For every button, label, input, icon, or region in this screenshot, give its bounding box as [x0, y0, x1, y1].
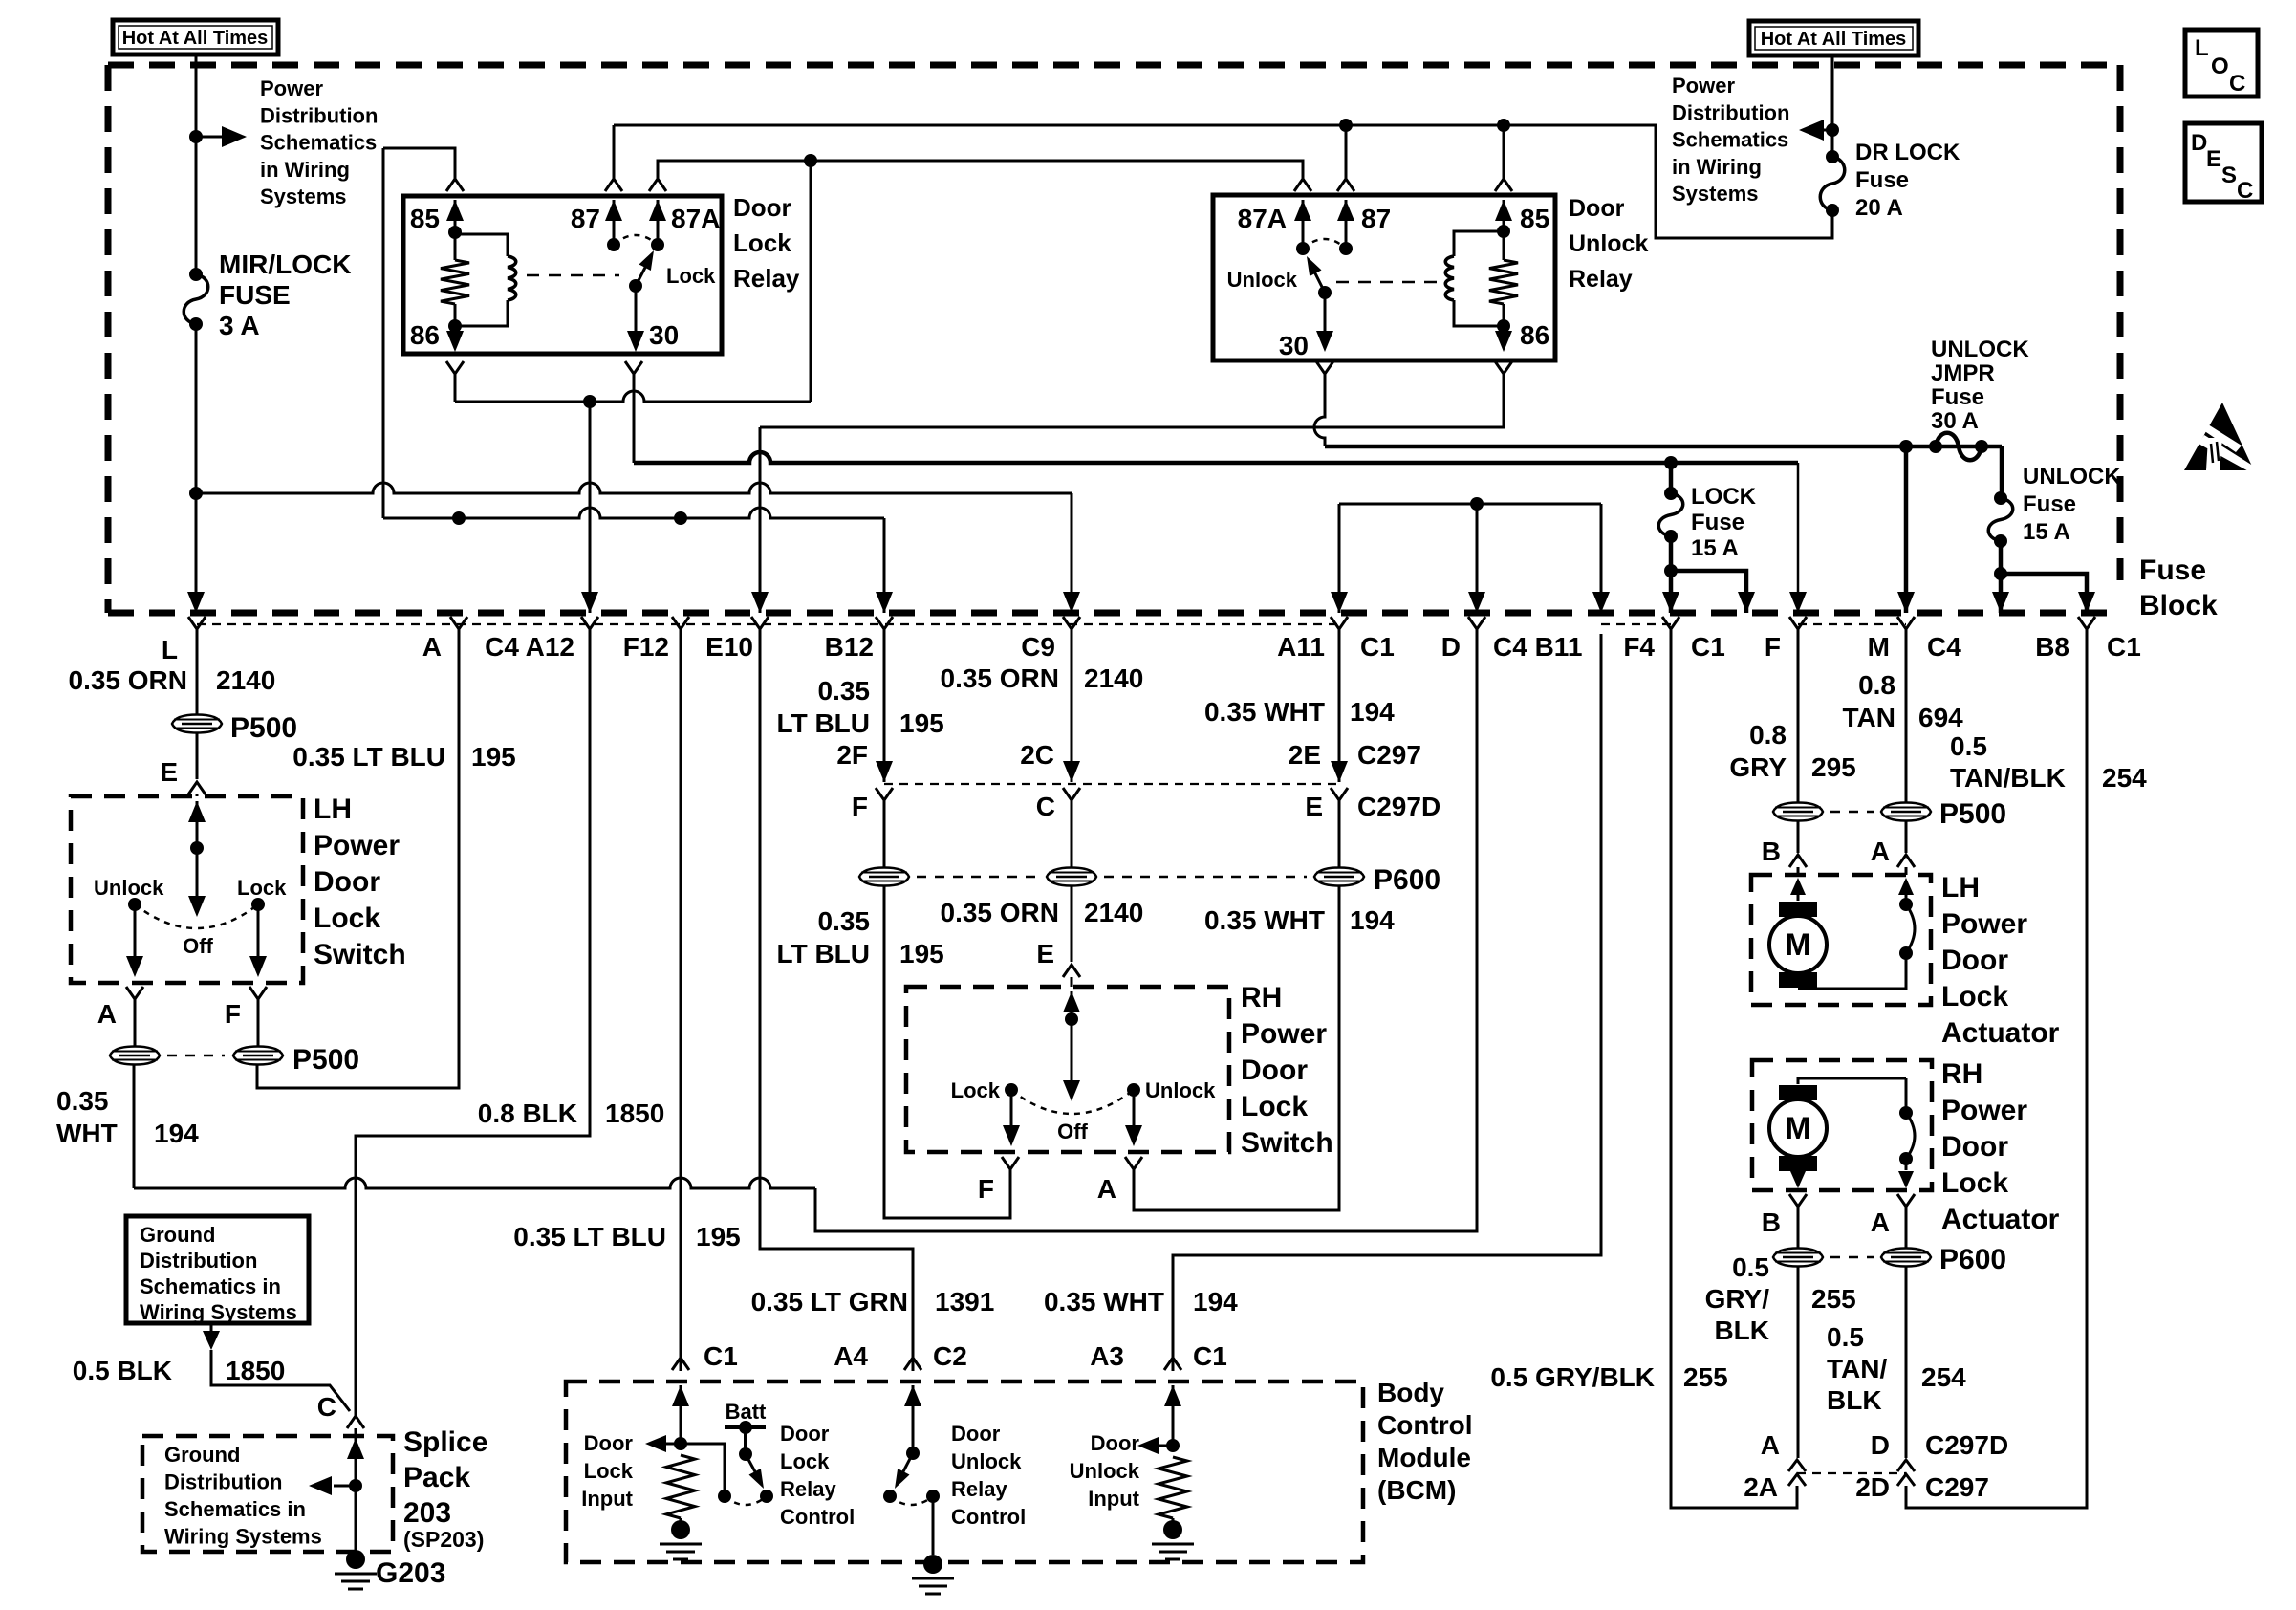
svg-text:Wiring Systems: Wiring Systems	[164, 1525, 322, 1549]
fuse LOCK 15A	[1669, 463, 1674, 493]
svg-text:Actuator: Actuator	[1941, 1017, 2060, 1049]
pin 30 lock relay	[635, 286, 638, 332]
svg-text:C: C	[1036, 792, 1055, 821]
svg-text:C297: C297	[1925, 1472, 1989, 1502]
svg-text:C4: C4	[1927, 632, 1961, 662]
svg-text:Schematics in: Schematics in	[140, 1274, 281, 1298]
svg-text:JMPR: JMPR	[1931, 360, 1995, 386]
connector C297 dashed	[884, 783, 1339, 785]
pin L	[188, 617, 206, 634]
svg-text:C9: C9	[1021, 632, 1055, 662]
wire B8 down right side	[1906, 634, 2087, 1508]
svg-text:194: 194	[1350, 905, 1395, 935]
svg-text:Power: Power	[1241, 1018, 1327, 1050]
wire B8 drop	[2001, 574, 2087, 613]
svg-text:C297: C297	[1357, 740, 1421, 770]
svg-text:Input: Input	[581, 1487, 633, 1511]
svg-text:Lock: Lock	[1941, 981, 2008, 1012]
mech link dashed unlock relay	[1336, 281, 1442, 284]
svg-text:254: 254	[1921, 1362, 1966, 1392]
wire unlock fuse chain	[2000, 446, 2004, 498]
svg-text:LOCK: LOCK	[1691, 484, 1757, 510]
svg-text:E: E	[1305, 792, 1323, 821]
pin 30 lock relay connector	[625, 361, 642, 379]
Hot At All Times box left	[113, 20, 278, 54]
pin F LH switch	[249, 987, 267, 1004]
fuse UNLOCK 15A	[1988, 498, 2013, 541]
fuse DR LOCK 20A	[1820, 157, 1845, 210]
wire P600 to RH switch F	[884, 886, 1010, 1218]
svg-text:0.35: 0.35	[56, 1086, 109, 1116]
svg-text:0.35 LT GRN: 0.35 LT GRN	[751, 1287, 908, 1316]
svg-text:Fuse: Fuse	[1931, 384, 1984, 410]
svg-text:2D: 2D	[1855, 1472, 1890, 1502]
svg-text:Switch: Switch	[1241, 1127, 1333, 1159]
svg-text:C1: C1	[1193, 1341, 1227, 1371]
wire B12 to 2F	[883, 634, 886, 782]
svg-text:Power: Power	[314, 830, 400, 861]
pin A RH switch	[1125, 1157, 1142, 1174]
svg-text:15 A: 15 A	[2023, 519, 2070, 545]
svg-text:M: M	[1786, 1111, 1811, 1145]
svg-text:Hot At All Times: Hot At All Times	[122, 28, 269, 49]
body control module box	[566, 1382, 1363, 1562]
wire y131 fused B+	[614, 125, 1832, 238]
svg-text:B12: B12	[825, 632, 874, 662]
svg-text:Off: Off	[183, 934, 213, 958]
svg-text:in Wiring: in Wiring	[1672, 155, 1762, 179]
svg-text:MIR/LOCK: MIR/LOCK	[219, 250, 351, 279]
power distribution note arrow left	[189, 130, 203, 143]
svg-text:C: C	[2229, 71, 2245, 97]
LH switch internals	[188, 801, 206, 822]
svg-text:D: D	[1441, 632, 1461, 662]
wire 0.35 LT BLU 195 LH	[257, 634, 459, 1088]
wire to LH switch E	[196, 733, 199, 779]
wire L from Hot At All Times 1	[195, 54, 198, 274]
door unlock relay box	[1213, 195, 1555, 360]
wire C1 drop (lock)	[1671, 571, 1746, 613]
wire lock relay 85 to H2	[382, 148, 385, 518]
fuse UNLOCK JMPR 30A	[1936, 433, 1982, 461]
wire 0.8 TAN 694	[1905, 634, 1908, 802]
svg-text:Door: Door	[584, 1431, 634, 1455]
svg-text:D: D	[2191, 130, 2207, 156]
svg-text:Fuse: Fuse	[2139, 555, 2206, 586]
pin B8	[2078, 617, 2095, 634]
LH power door lock actuator box	[1751, 875, 1931, 1005]
pin A	[450, 617, 467, 634]
svg-text:C1: C1	[1360, 632, 1395, 662]
svg-text:295: 295	[1811, 752, 1856, 782]
svg-text:Door: Door	[1941, 945, 2008, 976]
svg-text:0.8: 0.8	[1749, 720, 1787, 750]
svg-text:194: 194	[1193, 1287, 1238, 1316]
svg-text:E: E	[1036, 939, 1054, 968]
svg-text:Door: Door	[1941, 1131, 2008, 1163]
svg-text:Lock: Lock	[780, 1449, 830, 1473]
pin 87 unlock relay	[1337, 179, 1354, 191]
pin M	[1897, 617, 1915, 634]
wire lock 30 down	[633, 379, 636, 463]
svg-text:Hot At All Times: Hot At All Times	[1761, 29, 1907, 50]
svg-text:Ground: Ground	[164, 1443, 240, 1467]
svg-text:F: F	[852, 792, 868, 821]
pin C1 BCM	[672, 1358, 689, 1370]
svg-text:C1: C1	[704, 1341, 738, 1371]
pin A LH switch	[126, 987, 143, 1004]
connector P500 (single)	[172, 715, 222, 733]
svg-text:Door: Door	[951, 1422, 1001, 1446]
svg-text:E: E	[2206, 146, 2221, 172]
wire 0.35 WHT 194 LH	[133, 1065, 136, 1188]
door lock input arrow	[666, 1443, 681, 1446]
svg-text:0.35 ORN: 0.35 ORN	[69, 665, 188, 695]
pin C C297D	[1063, 788, 1080, 805]
svg-text:87A: 87A	[1238, 204, 1287, 233]
svg-text:203: 203	[403, 1497, 451, 1529]
svg-text:Door: Door	[1241, 1055, 1308, 1086]
svg-text:A3: A3	[1090, 1341, 1124, 1371]
svg-text:Input: Input	[1088, 1487, 1139, 1511]
svg-text:C4 A12: C4 A12	[485, 632, 574, 662]
svg-text:Module: Module	[1377, 1443, 1471, 1472]
RH switch internals	[1063, 991, 1080, 1012]
svg-text:F: F	[1765, 632, 1781, 662]
svg-text:Distribution: Distribution	[164, 1470, 282, 1494]
svg-text:F4: F4	[1623, 632, 1655, 662]
mech link dashed lock relay	[527, 274, 619, 277]
pins B A RH actuator	[1789, 1194, 1807, 1211]
RH power door lock actuator box	[1752, 1060, 1932, 1190]
svg-text:L: L	[162, 635, 178, 664]
wire net195 H2	[383, 508, 884, 518]
LH actuator switch branch	[1898, 878, 1914, 895]
svg-text:0.8 BLK: 0.8 BLK	[478, 1099, 577, 1128]
motor LH actuator	[1790, 878, 1806, 895]
svg-text:85: 85	[1520, 204, 1549, 233]
fuse block dashed border	[108, 65, 2120, 613]
switch door unlock relay control	[900, 1453, 913, 1477]
svg-text:85: 85	[410, 204, 440, 233]
svg-text:(BCM): (BCM)	[1377, 1475, 1456, 1505]
pin 85 lock relay	[446, 179, 464, 191]
svg-text:LH: LH	[1941, 872, 1980, 903]
wire F pin drop	[1797, 463, 1800, 613]
svg-text:Systems: Systems	[260, 185, 347, 208]
pin D	[1468, 617, 1485, 634]
svg-text:D: D	[1871, 1430, 1890, 1460]
svg-text:Lock: Lock	[237, 876, 287, 900]
wire C9 to 2C	[1071, 634, 1073, 782]
connector P500 pair LH switch	[134, 1004, 137, 1046]
ESD warning symbol	[2184, 402, 2254, 470]
svg-text:Door: Door	[780, 1422, 830, 1446]
svg-text:0.5: 0.5	[1827, 1322, 1864, 1352]
svg-text:Relay: Relay	[1569, 266, 1633, 293]
wire 0.35 LT BLU 195 to BCM	[680, 634, 682, 1371]
svg-text:2140: 2140	[216, 665, 275, 695]
switch unlock relay	[1296, 242, 1310, 255]
svg-text:Unlock: Unlock	[94, 876, 164, 900]
svg-text:255: 255	[1683, 1362, 1728, 1392]
svg-text:E: E	[160, 757, 178, 787]
svg-text:O: O	[2211, 54, 2229, 79]
wire net194 long run	[134, 1178, 815, 1188]
svg-text:195: 195	[899, 708, 944, 738]
ground unlock input	[1172, 1518, 1175, 1522]
svg-text:Schematics: Schematics	[1672, 128, 1788, 152]
svg-text:Lock: Lock	[733, 228, 791, 257]
svg-text:Distribution: Distribution	[1672, 100, 1789, 124]
svg-text:Unlock: Unlock	[951, 1449, 1022, 1473]
splice entry arrow	[347, 1438, 364, 1459]
wire 0.8 BLK 1850	[356, 634, 590, 1417]
pin C4 A12	[581, 617, 598, 634]
LH switch unlock contact drop	[134, 904, 137, 956]
door unlock input arrow	[1159, 1445, 1173, 1447]
wire D drop	[1476, 504, 1479, 613]
fuse block connector dashed line	[197, 623, 1906, 625]
svg-text:Ground: Ground	[140, 1223, 215, 1247]
svg-text:Body: Body	[1377, 1378, 1444, 1407]
svg-text:A: A	[1871, 1207, 1890, 1237]
svg-text:1850: 1850	[226, 1356, 285, 1385]
wire A11 drop	[1338, 504, 1341, 613]
svg-text:87A: 87A	[671, 204, 720, 233]
svg-text:GRY/: GRY/	[1705, 1284, 1770, 1314]
svg-text:C297D: C297D	[1925, 1430, 2008, 1460]
svg-text:Fuse: Fuse	[1855, 167, 1909, 193]
connector P500 pair right	[1773, 803, 1823, 821]
coil unlock relay	[1454, 231, 1504, 256]
svg-text:RH: RH	[1241, 982, 1282, 1013]
wire 0.35 LT GRN 1391	[760, 634, 913, 1371]
connector P600 pair right	[1773, 1249, 1823, 1267]
svg-text:WHT: WHT	[56, 1119, 118, 1148]
svg-text:194: 194	[154, 1119, 199, 1148]
svg-text:(SP203): (SP203)	[403, 1527, 484, 1552]
svg-text:2A: 2A	[1744, 1472, 1778, 1502]
LH power door lock switch box	[71, 796, 303, 983]
coil lock relay	[455, 234, 508, 256]
svg-text:C297D: C297D	[1357, 792, 1440, 821]
svg-text:LH: LH	[314, 794, 352, 825]
svg-text:C1: C1	[1691, 632, 1725, 662]
svg-text:A: A	[1761, 1430, 1780, 1460]
svg-text:254: 254	[2102, 763, 2147, 793]
svg-text:M: M	[1786, 927, 1811, 962]
svg-text:P600: P600	[1939, 1244, 2006, 1275]
svg-text:A: A	[97, 999, 117, 1029]
svg-text:Schematics in: Schematics in	[164, 1497, 306, 1521]
svg-text:B8: B8	[2035, 632, 2069, 662]
wire 0.5 GRY/BLK 255 F4	[1671, 634, 1797, 1508]
wire lock 86 to ground net	[454, 373, 457, 402]
svg-text:195: 195	[471, 742, 516, 772]
RH switch lock contact drop	[1010, 1090, 1013, 1125]
svg-text:in Wiring: in Wiring	[260, 158, 350, 182]
wire net194 inside fuse block	[1339, 503, 1601, 506]
wire 0.8 GRY 295	[1797, 634, 1800, 802]
connector P600 row	[859, 868, 909, 886]
svg-text:F12: F12	[623, 632, 669, 662]
svg-text:0.5 BLK: 0.5 BLK	[73, 1356, 172, 1385]
svg-text:Door: Door	[733, 193, 791, 222]
svg-text:Lock: Lock	[584, 1459, 634, 1483]
svg-text:A: A	[422, 632, 442, 662]
svg-text:B: B	[1762, 837, 1781, 866]
svg-text:Lock: Lock	[1941, 1167, 2008, 1199]
wire B12 drop	[883, 518, 886, 613]
svg-text:30: 30	[1279, 331, 1309, 360]
wire 0.5 TAN/BLK 254 down	[1905, 1267, 1908, 1458]
wire 0.35 ORN 2140	[196, 634, 199, 714]
ground distribution box (solid)	[126, 1216, 309, 1323]
svg-text:0.35 ORN: 0.35 ORN	[941, 898, 1060, 927]
ground lock input	[680, 1518, 682, 1522]
wire unlock 86 to E10 net y447	[760, 379, 1504, 427]
motor RH actuator	[1779, 1085, 1817, 1100]
splice junction arrow	[349, 1479, 362, 1492]
wire C9 drop	[1071, 493, 1073, 613]
wire E10 net vertical	[759, 427, 762, 613]
svg-text:3 A: 3 A	[219, 311, 260, 340]
RH switch unlock contact drop	[1133, 1090, 1136, 1125]
wire A11 to 2E	[1338, 634, 1341, 782]
wire 0.5 GRY/BLK 255 down	[1797, 1267, 1800, 1458]
svg-text:A4: A4	[834, 1341, 868, 1371]
wire C4A12 drop	[589, 402, 592, 613]
wire lock feed y484	[634, 452, 1798, 463]
svg-text:Power: Power	[1941, 1095, 2027, 1126]
svg-text:194: 194	[1350, 697, 1395, 727]
svg-text:2E: 2E	[1289, 740, 1321, 770]
svg-text:Schematics: Schematics	[260, 131, 377, 155]
svg-text:DR LOCK: DR LOCK	[1855, 140, 1960, 165]
svg-text:Distribution: Distribution	[260, 103, 378, 127]
wire D down	[1476, 634, 1479, 1231]
LH switch lock contact drop	[257, 904, 260, 956]
svg-text:20 A: 20 A	[1855, 195, 1903, 221]
pin C9	[1063, 617, 1080, 634]
pin F C297D	[876, 788, 893, 805]
RH actuator switch branch	[1905, 1078, 1908, 1113]
svg-text:P500: P500	[1939, 798, 2006, 830]
wire P600 to RH switch A	[1134, 886, 1339, 1210]
ground G203	[346, 1550, 365, 1569]
svg-text:P600: P600	[1374, 864, 1440, 896]
pin 87A unlock relay	[1294, 179, 1311, 191]
svg-text:P500: P500	[292, 1044, 359, 1076]
svg-text:GRY: GRY	[1729, 752, 1787, 782]
svg-text:694: 694	[1918, 703, 1963, 732]
svg-text:Relay: Relay	[780, 1477, 836, 1501]
svg-text:TAN/BLK: TAN/BLK	[1950, 763, 2066, 793]
wire hot2 down	[1831, 55, 1834, 157]
LOC box	[2185, 30, 2258, 97]
pin 87 lock relay	[605, 179, 622, 191]
DESC box	[2185, 123, 2262, 202]
svg-text:Switch: Switch	[314, 939, 406, 970]
svg-text:UNLOCK: UNLOCK	[2023, 464, 2121, 490]
svg-text:M: M	[1868, 632, 1890, 662]
svg-text:Control: Control	[951, 1505, 1026, 1529]
pin 86 unlock relay	[1495, 331, 1512, 352]
svg-text:0.35 ORN: 0.35 ORN	[941, 664, 1060, 693]
svg-text:0.35: 0.35	[818, 676, 871, 706]
svg-text:0.35 WHT: 0.35 WHT	[1044, 1287, 1164, 1316]
svg-text:Pack: Pack	[403, 1462, 470, 1493]
pin 86 unlock connector	[1495, 361, 1512, 379]
svg-text:86: 86	[410, 320, 440, 350]
svg-text:86: 86	[1520, 320, 1549, 350]
pin 30 unlock relay	[1324, 293, 1327, 332]
svg-text:BLK: BLK	[1827, 1385, 1882, 1415]
svg-text:0.5: 0.5	[1950, 731, 1987, 761]
power distribution note arrow right	[1803, 129, 1832, 132]
fuse MIR/LOCK FUSE 3A	[184, 274, 208, 324]
svg-text:C: C	[317, 1392, 336, 1422]
svg-text:Door: Door	[1569, 195, 1625, 222]
svg-text:0.5 GRY/BLK: 0.5 GRY/BLK	[1490, 1362, 1655, 1392]
wire hot feed H1	[196, 483, 1072, 493]
svg-text:Unlock: Unlock	[1070, 1459, 1140, 1483]
svg-text:2140: 2140	[1084, 664, 1143, 693]
svg-text:Power: Power	[1941, 908, 2027, 940]
svg-text:UNLOCK: UNLOCK	[1931, 337, 2029, 362]
svg-text:B: B	[1762, 1207, 1781, 1237]
wire unlock 87 up	[1345, 125, 1348, 179]
svg-text:0.35 WHT: 0.35 WHT	[1204, 697, 1325, 727]
svg-text:TAN/: TAN/	[1827, 1354, 1887, 1383]
svg-text:1850: 1850	[605, 1099, 664, 1128]
svg-text:Unlock: Unlock	[1145, 1078, 1216, 1102]
svg-text:L: L	[2195, 35, 2209, 61]
resistor door unlock input	[1159, 1457, 1187, 1518]
svg-text:C: C	[2237, 178, 2253, 204]
resistor door lock input	[666, 1455, 695, 1518]
svg-text:Unlock: Unlock	[1227, 268, 1298, 292]
resistor unlock relay	[1503, 231, 1505, 260]
RH power door lock switch box	[906, 987, 1229, 1152]
svg-text:Control: Control	[780, 1505, 855, 1529]
svg-text:A11: A11	[1277, 632, 1325, 662]
svg-text:Splice: Splice	[403, 1426, 487, 1458]
pin C2 BCM	[904, 1358, 921, 1370]
svg-text:0.35 LT BLU: 0.35 LT BLU	[513, 1222, 666, 1251]
svg-text:G203: G203	[376, 1557, 445, 1589]
svg-text:Door: Door	[314, 866, 380, 898]
svg-text:A: A	[1097, 1174, 1116, 1204]
pin 86 lock relay connector	[446, 361, 464, 379]
splice pack box	[142, 1436, 393, 1552]
svg-text:TAN: TAN	[1843, 703, 1895, 732]
switch lock relay	[607, 238, 620, 251]
svg-text:LT BLU: LT BLU	[777, 939, 870, 968]
pin E C297D	[1331, 788, 1348, 805]
svg-text:0.35: 0.35	[818, 906, 871, 936]
svg-text:255: 255	[1811, 1284, 1856, 1314]
svg-text:E10: E10	[705, 632, 753, 662]
svg-text:F: F	[978, 1174, 994, 1204]
resistor lock relay coil suppressor	[454, 232, 457, 260]
svg-text:2C: 2C	[1020, 740, 1054, 770]
svg-text:0.5: 0.5	[1732, 1252, 1769, 1282]
pin 85 unlock relay	[1495, 179, 1512, 191]
svg-text:RH: RH	[1941, 1058, 1982, 1090]
svg-text:Systems: Systems	[1672, 182, 1759, 206]
